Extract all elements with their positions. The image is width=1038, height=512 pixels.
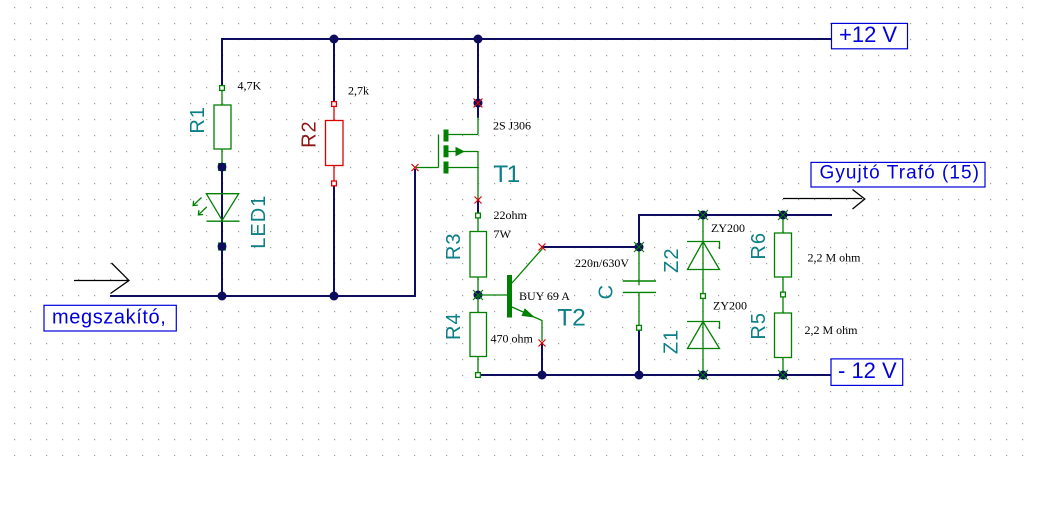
junction top rail R2: [330, 35, 339, 44]
svg-text:220n/630V: 220n/630V: [575, 256, 629, 270]
svg-text:ZY200: ZY200: [711, 221, 745, 235]
svg-text:R2: R2: [298, 120, 320, 148]
resistor R3: [470, 213, 487, 295]
junction Z2 top rail with green cross: [698, 210, 708, 220]
junction R3-R4-base with green cross: [473, 290, 483, 300]
pin cross T2 emitter: [539, 340, 546, 347]
resistor R2: [326, 102, 344, 186]
wire +12V top rail: [222, 38, 831, 40]
svg-text:2,2 M ohm: 2,2 M ohm: [805, 323, 859, 337]
junction T1 drain node with red cross: [474, 99, 483, 108]
label Gyujto Trafo (15): [811, 162, 985, 187]
junction left rail R1 column: [218, 292, 227, 301]
junction capacitor bottom rail: [635, 371, 644, 380]
junction capacitor top with green cross: [634, 242, 644, 252]
svg-text:T1: T1: [493, 161, 519, 188]
junction LED1 cathode pin: [218, 242, 227, 251]
wire emitter drop: [541, 344, 543, 375]
wire collector to capacitor node: [542, 246, 639, 248]
wire left rail megszakito: [111, 295, 415, 297]
LED LED1: [193, 194, 239, 222]
svg-text:Gyujtó Trafó (15): Gyujtó Trafó (15): [820, 163, 980, 184]
arrow megszakito input: [74, 263, 129, 294]
wire R2 top drop: [333, 39, 335, 101]
svg-text:4,7K: 4,7K: [238, 79, 262, 93]
svg-text:LED1: LED1: [248, 195, 270, 249]
svg-text:7W: 7W: [494, 227, 512, 241]
resistor R6: [775, 215, 792, 297]
junction R1-LED1: [218, 163, 227, 172]
zener diode Z2: [687, 217, 720, 298]
svg-text:BUY 69 A: BUY 69 A: [519, 289, 570, 303]
transistor T1 MOSFET: [416, 117, 478, 199]
label +12 V: [832, 22, 908, 49]
svg-text:R3: R3: [443, 233, 465, 261]
resistor R4: [470, 295, 487, 377]
svg-text:- 12 V: - 12 V: [838, 358, 897, 383]
svg-text:R4: R4: [443, 312, 465, 340]
junction R5 bottom rail with green cross: [778, 370, 788, 380]
svg-text:T2: T2: [557, 305, 586, 332]
wire -12V bottom rail: [478, 374, 831, 376]
resistor R5: [775, 297, 792, 375]
junction left rail R2 column: [330, 292, 339, 301]
label megszakito: [44, 305, 176, 331]
svg-text:2,7k: 2,7k: [348, 84, 369, 98]
pin cross T2 collector: [539, 244, 546, 251]
svg-text:22ohm: 22ohm: [494, 208, 528, 222]
svg-text:2,2 M ohm: 2,2 M ohm: [808, 251, 862, 265]
pin cross T1 source: [475, 197, 482, 204]
svg-text:Z2: Z2: [661, 248, 683, 273]
wire R1 top drop: [221, 39, 223, 88]
wire source to R3: [477, 201, 479, 215]
junction Z1 bottom rail with green cross: [698, 370, 708, 380]
wire capacitor bottom drop: [638, 331, 640, 375]
svg-text:470 ohm: 470 ohm: [491, 332, 534, 346]
label -12 V: [831, 358, 903, 385]
svg-text:ZY200: ZY200: [713, 299, 747, 313]
resistor R1: [214, 86, 231, 167]
wire gate riser: [414, 170, 416, 296]
wire R2 bottom to left rail: [333, 187, 335, 296]
wire trafo rail: [639, 214, 831, 216]
junction emitter bottom rail: [538, 371, 547, 380]
svg-text:2S J306: 2S J306: [493, 119, 531, 133]
transistor T2 BJT: [480, 248, 542, 342]
svg-text:+12 V: +12 V: [839, 22, 897, 47]
svg-text:C: C: [595, 284, 617, 299]
svg-text:R5: R5: [748, 312, 770, 340]
arrow to trafo: [783, 190, 865, 210]
junction top rail T1: [474, 35, 483, 44]
junction R6 top rail with green cross: [778, 210, 788, 220]
capacitor C: [623, 249, 656, 330]
svg-text:megszakító,: megszakító,: [52, 307, 166, 329]
svg-text:Z1: Z1: [661, 329, 683, 354]
pin cross T1 gate: [412, 164, 419, 171]
wire capacitor riser: [638, 215, 640, 247]
svg-text:R6: R6: [748, 232, 770, 260]
zener diode Z1: [687, 298, 720, 375]
wire T1 drain drop: [477, 39, 479, 117]
svg-text:R1: R1: [187, 106, 209, 134]
wire R1 to LED1 to left rail: [221, 167, 223, 296]
